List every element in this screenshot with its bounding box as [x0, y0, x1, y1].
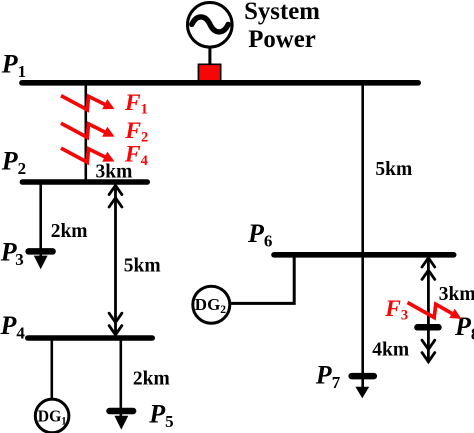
- fault F2 bolt: [61, 123, 115, 137]
- generator DG2 circle: [193, 286, 230, 323]
- load arrow P7: [355, 387, 369, 398]
- generator DG1 circle: [35, 399, 69, 433]
- svg-text:System: System: [244, 0, 320, 25]
- AC source G1 circle: [188, 3, 233, 48]
- svg-text:2km: 2km: [133, 368, 170, 389]
- wire P2 to P3 (2km line): [39, 184, 42, 256]
- load bar P5: [110, 408, 134, 415]
- load arrow P5: [114, 416, 128, 430]
- wire P2 to P4 distance arrow 5km: [109, 185, 122, 335]
- bus P2: [22, 179, 147, 185]
- svg-text:2km: 2km: [51, 221, 88, 242]
- wire P1 to P2 (3km line): [85, 85, 88, 181]
- wire P4 to DG1: [50, 340, 53, 399]
- bus P1: [22, 80, 418, 86]
- svg-text:3km: 3km: [439, 284, 474, 305]
- load bar P8: [417, 324, 438, 331]
- svg-text:5km: 5km: [375, 159, 412, 180]
- wire P6 to DG2: [230, 256, 295, 303]
- fault F4 bolt: [61, 148, 115, 162]
- wire P4 to P5 (2km line): [120, 340, 123, 416]
- svg-text:5km: 5km: [124, 255, 161, 276]
- wire source to breaker: [208, 46, 211, 66]
- load bar P7: [352, 373, 374, 380]
- bus P4: [28, 335, 152, 341]
- svg-text:Power: Power: [248, 26, 315, 53]
- breaker CB (red square): [198, 64, 220, 84]
- load arrow P3: [34, 256, 48, 270]
- svg-text:4km: 4km: [372, 340, 409, 361]
- fault F3 bolt: [408, 303, 462, 319]
- AC source sine wave: [192, 17, 228, 32]
- bus P6: [274, 252, 454, 258]
- wire P6 to P7 (4km line): [361, 256, 364, 387]
- load bar P3: [29, 248, 53, 255]
- wire P1 to P6 (5km line): [361, 85, 364, 253]
- wire P6 to P8 distance arrow 3km: [422, 258, 435, 362]
- fault F1 bolt: [61, 96, 115, 110]
